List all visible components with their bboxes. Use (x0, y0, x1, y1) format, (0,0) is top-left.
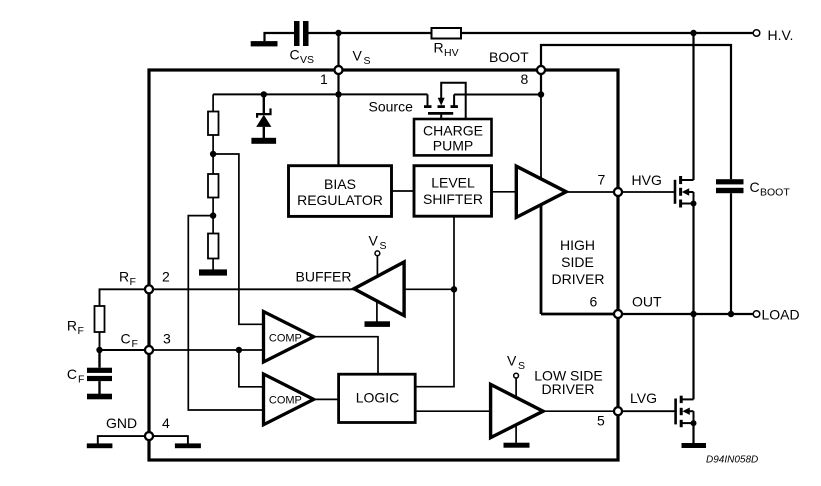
op-amp low side driver (491, 353, 603, 443)
block BIAS REGULATOR (289, 166, 392, 217)
wire (VS node to RHV) (339, 32, 432, 34)
node (tap 2) (210, 212, 216, 218)
wire (pin 4 right ground) (153, 436, 188, 444)
svg-text:C: C (750, 179, 760, 195)
svg-text:BUFFER: BUFFER (296, 269, 352, 285)
wire (bias regulator to level shifter) (392, 190, 415, 192)
wire (OUT internal segment) (541, 313, 618, 316)
svg-text:BOOT: BOOT (489, 49, 529, 65)
svg-text:VS: VS (300, 54, 314, 66)
pin 4 GND (106, 415, 170, 440)
svg-text:BIAS: BIAS (324, 176, 356, 192)
capacitor CF (67, 350, 112, 394)
svg-text:7: 7 (598, 171, 606, 187)
svg-text:V: V (507, 353, 517, 369)
ground (CVS ground symbol) (251, 33, 295, 46)
block LOGIC (339, 374, 416, 422)
svg-text:6: 6 (590, 293, 598, 309)
svg-text:V: V (369, 232, 379, 248)
block LEVEL SHIFTER (414, 166, 492, 217)
svg-text:DRIVER: DRIVER (552, 271, 605, 287)
transistor Q3 low side MOSFET (676, 396, 697, 428)
wire (HV rail to Q2 drain) (692, 33, 694, 180)
node (RF CF junction) (96, 347, 102, 353)
svg-text:COMP: COMP (269, 394, 302, 406)
wire (high side section left boundary down to OUT) (540, 205, 543, 314)
node (tap 1) (210, 151, 216, 157)
svg-text:R: R (434, 40, 444, 56)
wire (charge pump switch drain to BOOT node) (454, 94, 541, 96)
wire (OUT external line) (622, 313, 752, 315)
wire (Q2 source to OUT line) (692, 204, 694, 315)
resistor chain R3 (208, 234, 219, 271)
svg-text:3: 3 (163, 331, 171, 347)
svg-text:SHIFTER: SHIFTER (423, 191, 483, 207)
wire (pin 5 to low side MOSFET gate) (622, 410, 675, 412)
wire (pin 2 to buffer input) (153, 288, 354, 290)
transistor Q1 charge pump switch (369, 83, 466, 119)
svg-text:LOAD: LOAD (762, 307, 800, 323)
node (HV rail junction to high side MOSFET drain) (690, 30, 696, 36)
svg-text:D94IN058D: D94IN058D (706, 455, 758, 466)
node VS top rail junction (335, 30, 341, 36)
wire (pin 2 to external RF) (100, 289, 145, 306)
node (zener junction) (261, 91, 267, 97)
block CHARGE PUMP (414, 119, 492, 155)
zener diode (VS clamp) (256, 94, 271, 138)
node (Q2 source / Q3 drain on OUT) (690, 311, 696, 317)
pin 6 OUT (590, 293, 663, 318)
pin 2 RF (119, 269, 170, 294)
wire (CBOOT to OUT line) (730, 193, 732, 314)
svg-text:BOOT: BOOT (760, 187, 790, 199)
pin 8 BOOT (489, 49, 545, 87)
capacitor CVS (290, 21, 315, 66)
ground (pin 4 right ground bar) (175, 443, 201, 448)
svg-text:1: 1 (320, 71, 328, 87)
svg-text:LEVEL: LEVEL (431, 175, 475, 191)
wire (pin 7 to high side MOSFET gate) (622, 191, 675, 193)
svg-text:C: C (121, 331, 131, 347)
wire (node to pin 3) (100, 349, 145, 351)
node (pin1 line junction) (335, 91, 341, 97)
svg-text:R: R (119, 269, 129, 285)
wire (tap1 to COMP1 non-inverting input) (213, 154, 263, 324)
node (buffer output junction) (451, 286, 457, 292)
svg-text:HIGH: HIGH (560, 237, 595, 253)
resistor RF external (67, 306, 105, 337)
svg-text:C: C (67, 366, 77, 382)
wire (tap2 to COMP2 inverting input) (188, 216, 263, 410)
pin 3 CF (121, 331, 172, 354)
wire (buffer output to level shifter line) (404, 288, 454, 290)
wire (BOOT junction down to high side driver supply / floating section) (540, 95, 542, 206)
resistor RHV (432, 28, 462, 59)
resistor chain R2 (208, 174, 219, 234)
terminal LOAD (753, 307, 799, 323)
svg-text:R: R (67, 318, 77, 334)
wire (LOGIC to low side driver) (415, 410, 490, 412)
svg-text:S: S (364, 55, 371, 67)
buffer amplifier (296, 232, 405, 321)
svg-text:PUMP: PUMP (433, 138, 473, 154)
svg-text:S: S (380, 240, 387, 252)
wire (level shifter down to logic, with buffer output junction) (415, 216, 454, 387)
svg-text:CHARGE: CHARGE (423, 122, 483, 138)
wire (CVS to VS node) (309, 32, 339, 34)
svg-text:OUT: OUT (632, 293, 662, 309)
svg-text:H.V.: H.V. (768, 27, 794, 43)
pin 1 VS (320, 48, 371, 88)
comparator COMP2 (264, 374, 314, 425)
svg-text:LOGIC: LOGIC (356, 390, 400, 406)
ground (buffer ground) (365, 321, 391, 327)
pin 5 LVG (597, 390, 657, 428)
wire (RHV to H.V. terminal) (461, 32, 753, 34)
wire (low side driver output to pin 5) (543, 410, 614, 412)
svg-text:F: F (78, 373, 84, 385)
svg-text:F: F (78, 325, 84, 337)
wire (pin 3 to comparators) (153, 349, 263, 351)
ground (CF ground) (87, 394, 112, 400)
wire (internal rail y=94 from resistor chain to charge pump source) (213, 93, 427, 95)
comparator COMP1 (264, 312, 314, 363)
node (pin3 branch junction) (236, 347, 242, 353)
svg-text:F: F (132, 338, 138, 350)
IC box outline (149, 70, 618, 460)
node (BOOT junction below pin 8) (538, 91, 544, 97)
wire (COMP2 output to LOGIC) (314, 398, 339, 400)
svg-text:4: 4 (162, 415, 170, 431)
svg-text:GND: GND (106, 415, 137, 431)
op-amp high side driver triangle (516, 166, 566, 217)
wire (BOOT pin up and over to CBOOT) (541, 45, 731, 179)
transistor Q2 high side MOSFET (675, 176, 697, 208)
svg-text:DRIVER: DRIVER (542, 381, 595, 397)
svg-text:HVG: HVG (632, 172, 662, 188)
svg-text:V: V (353, 48, 363, 64)
svg-text:SIDE: SIDE (561, 254, 594, 270)
wire (COMP1 output to LOGIC top) (314, 337, 378, 375)
svg-text:HV: HV (444, 47, 459, 59)
terminal H.V. (753, 27, 793, 43)
wire (Q3 source to ground) (692, 423, 694, 443)
capacitor CBOOT (716, 179, 790, 199)
ground (low side driver ground) (504, 443, 530, 448)
svg-text:S: S (518, 360, 525, 372)
wire (driver output to pin 7) (566, 191, 614, 193)
ground (resistor chain ground) (199, 269, 227, 275)
svg-text:Source: Source (369, 99, 414, 115)
svg-text:COMP: COMP (269, 332, 302, 344)
svg-text:F: F (130, 276, 136, 288)
ground (zener ground) (251, 138, 276, 144)
svg-text:REGULATOR: REGULATOR (297, 192, 383, 208)
wire (OUT to Q3 drain) (692, 314, 694, 399)
wire (pin 4 left ground) (98, 436, 145, 444)
ground (pin 4 left ground bar) (87, 443, 113, 448)
wire (level shifter to high side driver input) (492, 191, 517, 193)
wire (pin1 VS vertical into IC) (337, 33, 339, 166)
resistor chain R1 (208, 94, 219, 174)
label HIGH SIDE DRIVER (552, 237, 605, 287)
svg-text:2: 2 (162, 269, 170, 285)
wire (branch down to COMP2 non-inverting input) (239, 350, 264, 387)
svg-text:8: 8 (521, 71, 529, 87)
ground (Q3 source ground) (682, 443, 707, 448)
svg-text:5: 5 (597, 413, 605, 429)
svg-text:C: C (290, 47, 300, 63)
svg-text:LVG: LVG (630, 390, 657, 406)
pin 7 HVG (598, 171, 662, 196)
wire (pin 8 to junction) (540, 70, 542, 95)
node (CBOOT on OUT) (728, 311, 734, 317)
wire (RF to CF node) (99, 332, 101, 350)
